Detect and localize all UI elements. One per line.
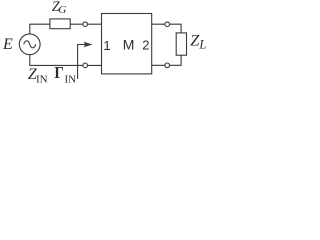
svg-text:2: 2 [142, 37, 149, 52]
svg-text:IN: IN [36, 74, 48, 86]
svg-text:Γ: Γ [54, 63, 63, 82]
svg-text:E: E [2, 36, 13, 53]
svg-text:IN: IN [65, 74, 77, 86]
svg-text:G: G [58, 4, 66, 16]
svg-text:1: 1 [103, 38, 110, 53]
svg-text:L: L [198, 38, 206, 52]
svg-text:M: M [123, 37, 135, 53]
